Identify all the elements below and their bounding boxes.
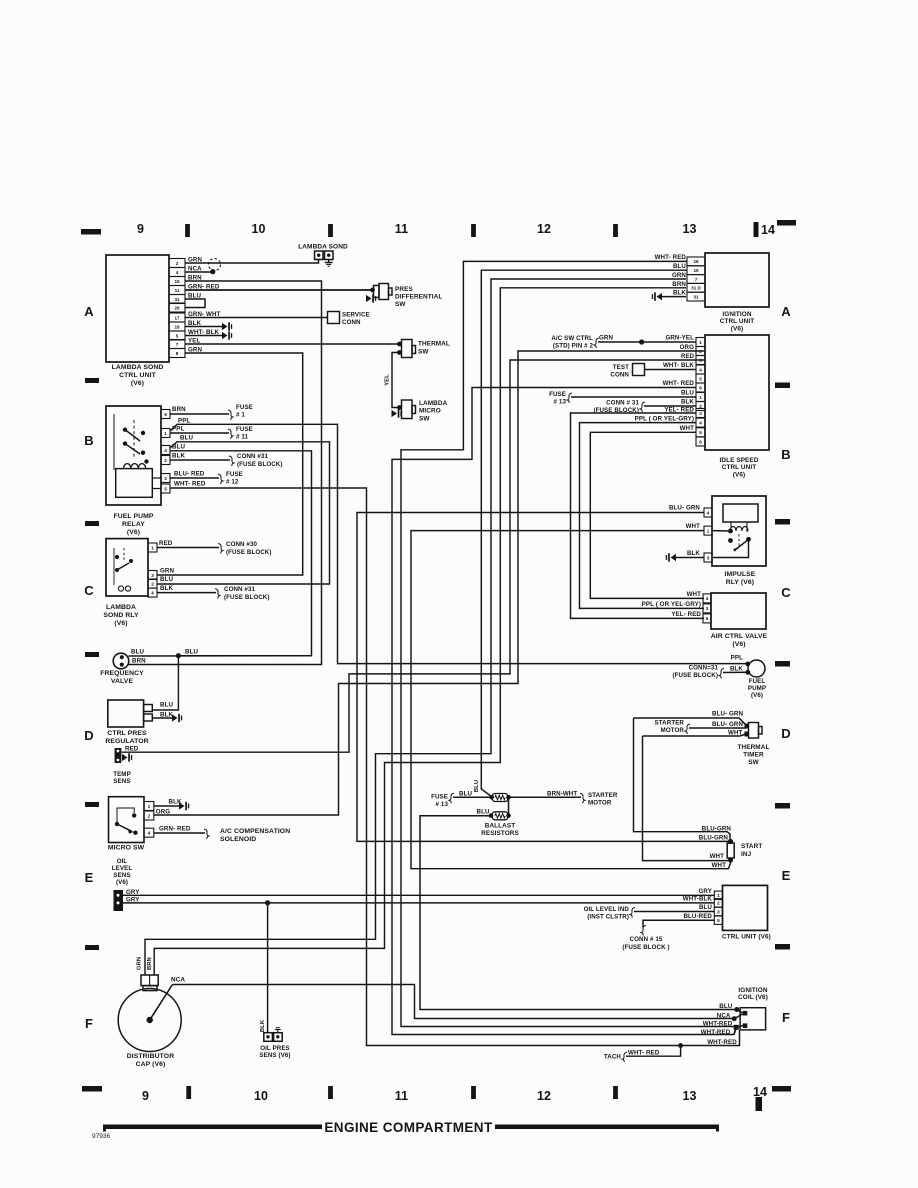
wire BLK micro sw pin1 to connector [154, 799, 189, 811]
svg-text:FUEL: FUEL [749, 678, 766, 685]
wire BLU frequency valve junction [129, 653, 312, 658]
wire WHT-RED idle pin6 bus down jog [392, 380, 736, 1035]
svg-text:11: 11 [395, 1089, 408, 1103]
svg-text:11: 11 [175, 288, 180, 293]
micro sw pins [144, 802, 154, 838]
svg-text:WHT-RED: WHT-RED [707, 1039, 737, 1046]
svg-text:5: 5 [717, 918, 720, 923]
svg-text:(V6): (V6) [733, 471, 745, 478]
start inj wire labels [699, 826, 732, 870]
svg-text:TIMER: TIMER [743, 751, 764, 758]
svg-text:BLK: BLK [172, 453, 185, 460]
svg-text:A/C SW CTRL: A/C SW CTRL [551, 335, 593, 342]
wire GRY oil level sens to ctrl unit pin1 [123, 894, 714, 896]
svg-text:BLU- GRN: BLU- GRN [712, 711, 743, 718]
wire GRN ignition ctrl pin7 bus to distributor [145, 279, 686, 975]
svg-text:(FUSE BLOCK): (FUSE BLOCK) [237, 461, 283, 468]
wire GRN-WHT pin17 to service conn [185, 317, 328, 319]
svg-text:SENS: SENS [113, 872, 130, 879]
svg-text:3: 3 [717, 909, 720, 914]
svg-text:RLY (V6): RLY (V6) [726, 579, 754, 586]
ignition ctrl unit pins [687, 257, 705, 301]
svg-text:BLK: BLK [687, 550, 700, 557]
wire BLU fuse 13 to ballast resistor 1 [431, 791, 492, 809]
wire BLU ballast resistor 2 bus to ignition coil BLU [420, 816, 737, 1010]
wire WHT-RED ignition pin16 bus down [401, 254, 736, 1027]
wire BLK pin18 to connector [185, 322, 232, 330]
ballast resistor 2 [477, 809, 520, 837]
svg-text:WHT: WHT [686, 523, 701, 530]
svg-text:BLU- GRN: BLU- GRN [712, 721, 743, 728]
svg-text:7: 7 [695, 277, 698, 282]
svg-text:MOTOR: MOTOR [661, 727, 685, 734]
svg-text:5: 5 [176, 333, 179, 338]
svg-text:4: 4 [706, 596, 709, 601]
svg-text:OIL LEVEL IND: OIL LEVEL IND [584, 906, 630, 913]
svg-text:A: A [84, 304, 94, 319]
micro sw internals [115, 808, 138, 835]
impulse rly internals coil and switch [712, 522, 751, 558]
svg-text:WHT-RED: WHT-RED [703, 1021, 733, 1028]
svg-text:(V6): (V6) [114, 620, 127, 627]
svg-text:4: 4 [176, 270, 179, 275]
svg-text:PPL ( OR YEL-GRY): PPL ( OR YEL-GRY) [635, 416, 694, 423]
svg-text:GRN- RED: GRN- RED [159, 826, 191, 833]
svg-text:16: 16 [693, 259, 699, 264]
svg-text:PPL: PPL [178, 418, 190, 425]
svg-text:BLU: BLU [673, 263, 686, 270]
top ruler grid numbers and ticks [81, 220, 796, 237]
svg-text:BLU: BLU [719, 1003, 732, 1010]
svg-text:# 12: # 12 [226, 479, 239, 486]
idle speed ctrl unit box [705, 335, 769, 478]
svg-text:SW: SW [418, 349, 429, 356]
wire BLK fuel pump to conn 31 [672, 665, 747, 680]
wire ORG micro sw pin2 bus to idle speed ORG [154, 351, 705, 815]
service conn square [328, 312, 370, 327]
svg-text:FUSE: FUSE [236, 426, 253, 433]
svg-text:FUSE: FUSE [549, 391, 566, 398]
wire GRN-RED micro sw pin4 to a/c compensation solenoid [154, 826, 290, 844]
wire WHT-RED third riser to coil [736, 1030, 740, 1046]
svg-text:BRN-WHT: BRN-WHT [547, 791, 577, 798]
svg-text:18: 18 [174, 324, 180, 329]
wire BLU-RED pin3 to fuse 12 [170, 471, 243, 486]
svg-text:RESISTORS: RESISTORS [481, 830, 519, 837]
wire BLU ignition pin15 bus to ballast resistor [474, 263, 687, 797]
svg-text:E: E [782, 868, 791, 883]
svg-text:4: 4 [699, 420, 702, 425]
idle speed ctrl unit pins group2 [696, 393, 705, 447]
lambda sond ctrl unit box [106, 255, 169, 387]
svg-text:8: 8 [176, 351, 179, 356]
svg-text:A/C COMPENSATION: A/C COMPENSATION [220, 828, 290, 835]
svg-text:BLU: BLU [459, 791, 472, 798]
wire labels lambda ctrl unit [188, 257, 221, 354]
svg-text:BLU: BLU [131, 649, 144, 656]
wire GRN pin2 to lambda sond sensor [185, 259, 319, 264]
svg-text:SW: SW [395, 301, 406, 308]
svg-text:YEL- RED: YEL- RED [671, 611, 701, 618]
wire YEL thermal sw to lambda micro sw [385, 353, 400, 408]
svg-text:STARTER: STARTER [655, 720, 685, 727]
idle speed ctrl unit pins group1 [696, 338, 705, 393]
svg-text:(V6): (V6) [732, 641, 745, 648]
node junction ctrl pres BLU riser [152, 656, 178, 710]
svg-text:RELAY: RELAY [122, 521, 145, 528]
ignition coil wire labels and junction dots [701, 1003, 743, 1046]
svg-text:BLU: BLU [474, 780, 480, 792]
svg-text:LAMBDA: LAMBDA [106, 604, 136, 611]
wire BRN ignition ctrl pin31D bus to distributor [154, 288, 686, 975]
wire WHT-BLK pin5 to connector [185, 331, 232, 339]
svg-text:6: 6 [699, 439, 702, 444]
svg-text:10: 10 [251, 222, 265, 236]
wire BLU-RED ctrl unit pin5 to conn 15 [622, 913, 714, 951]
svg-text:97936: 97936 [92, 1133, 110, 1140]
svg-text:1: 1 [148, 804, 151, 809]
svg-text:1: 1 [699, 395, 702, 400]
svg-text:BLU: BLU [681, 390, 694, 397]
svg-text:MICRO SW: MICRO SW [108, 845, 145, 852]
svg-text:CONN=31: CONN=31 [689, 665, 719, 672]
svg-text:WHT- BLK: WHT- BLK [663, 362, 694, 369]
svg-text:31: 31 [693, 294, 699, 299]
svg-text:FUEL PUMP: FUEL PUMP [113, 513, 153, 520]
svg-text:BLU-RED: BLU-RED [683, 913, 712, 920]
svg-text:5: 5 [164, 486, 167, 491]
svg-text:7: 7 [176, 342, 179, 347]
wire GRN-YEL a/c sw ctrl annotation [551, 335, 696, 350]
svg-text:2: 2 [176, 261, 179, 266]
svg-text:CONN #31: CONN #31 [224, 586, 256, 593]
svg-text:WHT: WHT [680, 425, 695, 432]
svg-text:9: 9 [142, 1089, 149, 1103]
svg-text:IMPULSE: IMPULSE [725, 571, 756, 578]
micro sw box [108, 797, 145, 852]
wire WHT-RED pin5 long bus to ignition coil third WHT-RED [170, 481, 736, 1046]
svg-text:SENS: SENS [113, 778, 130, 785]
jumper loop pin31 to pin29 [185, 299, 205, 308]
svg-text:GRN: GRN [672, 272, 686, 279]
wire BLK idle g2 pin2 to conn 31 [593, 399, 696, 415]
svg-text:PRES: PRES [395, 286, 413, 293]
svg-text:BLU: BLU [160, 702, 173, 709]
svg-text:(FUSE BLOCK): (FUSE BLOCK) [224, 594, 270, 601]
svg-text:PPL: PPL [172, 426, 184, 433]
svg-text:9: 9 [137, 222, 144, 236]
svg-text:LAMBDA: LAMBDA [419, 400, 448, 407]
svg-text:2: 2 [148, 813, 151, 818]
svg-text:FUSE: FUSE [226, 471, 243, 478]
svg-text:RED: RED [681, 354, 695, 360]
svg-text:PPL: PPL [731, 655, 743, 662]
svg-text:(V6): (V6) [131, 380, 144, 387]
ignition coil connector [738, 987, 768, 1030]
svg-text:CAP (V6): CAP (V6) [136, 1061, 166, 1068]
svg-text:LAMBDA SOND: LAMBDA SOND [298, 244, 348, 251]
wire BRN-WHT ballast resistor 1 to starter motor [509, 791, 618, 807]
wire BLU oil level ind to ctrl unit pin3 [584, 904, 715, 920]
svg-text:B: B [84, 433, 94, 448]
svg-text:BLU: BLU [699, 904, 712, 911]
svg-text:SOND RLY: SOND RLY [103, 612, 139, 619]
svg-text:D: D [84, 728, 94, 743]
ignition ctrl unit box [705, 253, 769, 332]
row letters right margin [781, 304, 791, 1025]
svg-text:ORG: ORG [156, 808, 170, 815]
svg-text:WHT-BLK: WHT-BLK [683, 896, 713, 903]
svg-text:3: 3 [164, 476, 167, 481]
svg-text:WHT: WHT [728, 730, 743, 737]
svg-text:# 13: # 13 [554, 399, 567, 406]
wire link ballast resistors right side [508, 797, 510, 815]
svg-text:IGNITION: IGNITION [722, 311, 751, 318]
svg-text:CONN: CONN [610, 372, 629, 379]
svg-text:DIFFERENTIAL: DIFFERENTIAL [395, 294, 442, 301]
svg-text:FREQUENCY: FREQUENCY [100, 670, 144, 677]
svg-text:ORG: ORG [680, 344, 694, 351]
oil level sens symbol [112, 858, 140, 911]
svg-text:(STD) PIN # 2: (STD) PIN # 2 [553, 343, 594, 350]
svg-text:E: E [85, 870, 94, 885]
svg-text:BLK: BLK [673, 289, 686, 296]
right margin dashes [775, 383, 790, 950]
svg-text:BLU-GRN: BLU-GRN [699, 835, 729, 842]
svg-text:(V6): (V6) [127, 529, 140, 536]
svg-text:TACH: TACH [604, 1054, 622, 1061]
svg-text:IGNITION: IGNITION [738, 987, 767, 994]
svg-text:SW: SW [748, 759, 759, 766]
svg-text:ENGINE COMPARTMENT: ENGINE COMPARTMENT [324, 1120, 493, 1135]
svg-text:RED: RED [159, 540, 173, 547]
svg-text:# 11: # 11 [236, 434, 249, 441]
svg-text:WHT: WHT [710, 853, 725, 860]
svg-text:B: B [781, 447, 791, 462]
ctrl unit wire labels GRY WHT-BLK [683, 888, 713, 903]
svg-text:WHT- RED: WHT- RED [663, 380, 695, 387]
svg-text:CTRL UNIT (V6): CTRL UNIT (V6) [722, 934, 771, 941]
svg-text:PUMP: PUMP [748, 685, 766, 692]
impulse rly pins [704, 508, 712, 562]
svg-text:BRN: BRN [132, 658, 146, 665]
svg-text:4: 4 [707, 510, 710, 515]
svg-text:BLK: BLK [160, 585, 173, 592]
svg-text:WHT- RED: WHT- RED [655, 254, 687, 261]
svg-text:GRN-YEL: GRN-YEL [665, 335, 694, 342]
svg-text:(V6): (V6) [751, 692, 763, 699]
air ctrl valve wire labels [642, 591, 702, 618]
wire RED temp sens to idle speed RED via jogs [122, 360, 706, 752]
svg-text:5: 5 [699, 376, 702, 381]
svg-text:4: 4 [699, 367, 702, 372]
svg-text:(V6): (V6) [116, 879, 128, 886]
svg-text:BALLAST: BALLAST [485, 823, 516, 830]
wire NCA distributor to ignition coil [150, 977, 734, 1021]
svg-text:GRN: GRN [160, 568, 174, 575]
svg-text:BLU: BLU [477, 809, 490, 816]
wire BLU-GRN impulse pin4 bus to start inj [357, 505, 728, 842]
svg-text:A: A [781, 304, 791, 319]
svg-text:1: 1 [717, 893, 720, 898]
wire BLU pin4 upper bus to lambda sond rly pin2 [157, 435, 330, 585]
svg-text:CTRL PRES: CTRL PRES [107, 730, 147, 737]
svg-text:1: 1 [151, 545, 154, 550]
svg-text:BLU: BLU [180, 435, 193, 442]
svg-text:INJ: INJ [741, 851, 752, 858]
svg-text:RED: RED [125, 746, 139, 753]
svg-text:2: 2 [164, 458, 167, 463]
wire RED rly pin1 to conn 30 [157, 540, 272, 556]
svg-text:FUSE: FUSE [431, 794, 448, 801]
svg-text:STARTER: STARTER [588, 792, 618, 799]
svg-text:13: 13 [682, 222, 696, 236]
svg-text:BRN: BRN [172, 406, 186, 413]
wire BLU idle g2 pin1 to fuse 13 [549, 390, 696, 406]
lambda micro sw connector [392, 400, 448, 422]
svg-text:(FUSE BLOCK): (FUSE BLOCK) [226, 549, 272, 556]
wire BLU-GRN bus thermal timer to start inj upper [634, 718, 731, 841]
wire BLK rly pin4 to conn 31 [157, 585, 270, 601]
svg-text:OIL PRES: OIL PRES [260, 1045, 290, 1052]
svg-text:4: 4 [148, 831, 151, 836]
wire BLU-GRN thermal timer upper from bus [634, 711, 747, 726]
ctrl pres regulator box [105, 700, 173, 745]
wire PPL pin1 lower to fuse 11 [170, 426, 253, 441]
svg-text:TEMP: TEMP [113, 771, 131, 778]
lambda sond ctrl unit pins [169, 259, 185, 358]
svg-text:15: 15 [174, 279, 180, 284]
svg-text:NCA: NCA [171, 977, 185, 984]
wire WHT idle g2 pin5 bus to air ctrl valve [590, 425, 704, 598]
svg-text:14: 14 [753, 1085, 767, 1099]
svg-text:3: 3 [699, 411, 702, 416]
svg-text:GRY: GRY [699, 888, 713, 895]
svg-text:BLU: BLU [160, 576, 173, 583]
svg-text:4: 4 [164, 448, 167, 453]
lambda sond sensor symbol [298, 244, 348, 267]
svg-text:SENS (V6): SENS (V6) [259, 1052, 290, 1059]
svg-text:10: 10 [254, 1089, 268, 1103]
svg-text:TEST: TEST [613, 364, 629, 371]
svg-text:BLK: BLK [260, 1019, 266, 1032]
svg-text:6: 6 [164, 412, 167, 417]
svg-text:3: 3 [699, 358, 702, 363]
svg-text:VALVE: VALVE [111, 678, 134, 685]
wire BLK ctrl pres regulator to connector [152, 714, 182, 722]
fuel pump relay internals switch and coil [114, 414, 161, 497]
wire NCA pin4 with dashed connector circle [185, 259, 221, 275]
pres differential sw connector [366, 284, 442, 309]
impulse rly box [712, 496, 766, 586]
svg-text:AIR CTRL VALVE: AIR CTRL VALVE [711, 633, 768, 640]
svg-text:OIL: OIL [117, 858, 128, 865]
engine compartment footer bar [103, 1120, 719, 1135]
thermal sw connector [397, 340, 450, 358]
svg-text:NCA: NCA [717, 1012, 731, 1019]
svg-text:29: 29 [174, 305, 180, 310]
temp sens symbol [113, 746, 139, 786]
svg-text:12: 12 [537, 222, 551, 236]
svg-text:2: 2 [699, 349, 702, 354]
svg-text:(FUSE BLOCK ): (FUSE BLOCK ) [622, 944, 669, 951]
svg-text:THERMAL: THERMAL [418, 341, 450, 348]
wire PPL pin1 upper bus to fuel pump [170, 418, 747, 664]
ballast resistor 1 [489, 794, 510, 802]
svg-text:BRN: BRN [672, 281, 686, 288]
svg-text:CONN # 31: CONN # 31 [606, 400, 639, 407]
wire WHT bus thermal timer to start inj lower [643, 736, 729, 861]
svg-text:11: 11 [395, 222, 408, 236]
wire WHT-BLK idle pin4 to test conn [610, 362, 696, 379]
wire BLU pin4 lower bus to frequency valve [170, 444, 312, 656]
lambda sond rly box [103, 539, 148, 627]
wire WHT impulse pin1 bus to start inj [411, 523, 731, 869]
svg-text:(V6): (V6) [731, 325, 743, 332]
wire GRN pin8 bus down to lambda sond rly pin3 [157, 353, 303, 575]
wire BLK junction down to oil pres sens [260, 903, 268, 1033]
svg-text:1: 1 [707, 528, 710, 533]
start inj [727, 839, 762, 863]
svg-text:CONN # 15: CONN # 15 [630, 936, 663, 943]
svg-text:31 D: 31 D [691, 286, 701, 291]
svg-text:BLK: BLK [681, 399, 694, 406]
svg-text:13: 13 [682, 1089, 696, 1103]
wire GRN-RED pin11 to pres differential sw [185, 289, 372, 291]
svg-text:F: F [782, 1010, 790, 1025]
svg-text:31: 31 [174, 297, 180, 302]
left margin dashes [85, 378, 99, 950]
svg-text:3: 3 [707, 555, 710, 560]
svg-text:GRN: GRN [137, 957, 143, 970]
svg-text:# 13: # 13 [436, 801, 449, 808]
svg-text:COIL (V6): COIL (V6) [738, 994, 768, 1001]
svg-text:3: 3 [151, 573, 154, 578]
svg-text:WHT- RED: WHT- RED [628, 1050, 660, 1057]
svg-text:WHT-RED: WHT-RED [701, 1029, 731, 1036]
svg-text:MICRO: MICRO [419, 408, 441, 415]
svg-text:DISTRIBUTOR: DISTRIBUTOR [127, 1053, 174, 1060]
svg-text:SOLENOID: SOLENOID [220, 836, 256, 843]
oil pres sens symbol [259, 1028, 290, 1059]
svg-text:FUSE: FUSE [236, 404, 253, 411]
svg-text:14: 14 [761, 223, 775, 237]
svg-text:SW: SW [419, 415, 430, 422]
svg-text:C: C [781, 585, 791, 600]
svg-text:IDLE SPEED: IDLE SPEED [720, 457, 759, 464]
wire BLU-GRN thermal timer from starter motor [655, 720, 746, 735]
wire WHT thermal timer from bus [643, 730, 747, 737]
svg-text:5: 5 [706, 616, 709, 621]
svg-text:LAMBDA SOND: LAMBDA SOND [112, 364, 164, 371]
svg-text:F: F [85, 1016, 93, 1031]
wire TACH annotation [604, 1043, 683, 1062]
svg-text:# 1: # 1 [236, 412, 245, 419]
lambda sond rly internals [114, 548, 133, 591]
fuel pump circle [730, 655, 766, 700]
svg-text:BLU- GRN: BLU- GRN [669, 505, 700, 512]
svg-text:BLK: BLK [730, 665, 743, 672]
svg-text:CTRL UNIT: CTRL UNIT [720, 318, 755, 325]
svg-text:15: 15 [693, 268, 699, 273]
svg-text:START: START [741, 843, 762, 850]
svg-text:(FUSE BLOCK): (FUSE BLOCK) [672, 672, 718, 679]
svg-text:CTRL UNIT: CTRL UNIT [119, 372, 156, 379]
svg-text:SERVICE: SERVICE [342, 312, 370, 319]
svg-text:BRN: BRN [147, 957, 153, 970]
svg-text:BLU- RED: BLU- RED [174, 471, 205, 478]
svg-text:MOTOR: MOTOR [588, 800, 612, 807]
